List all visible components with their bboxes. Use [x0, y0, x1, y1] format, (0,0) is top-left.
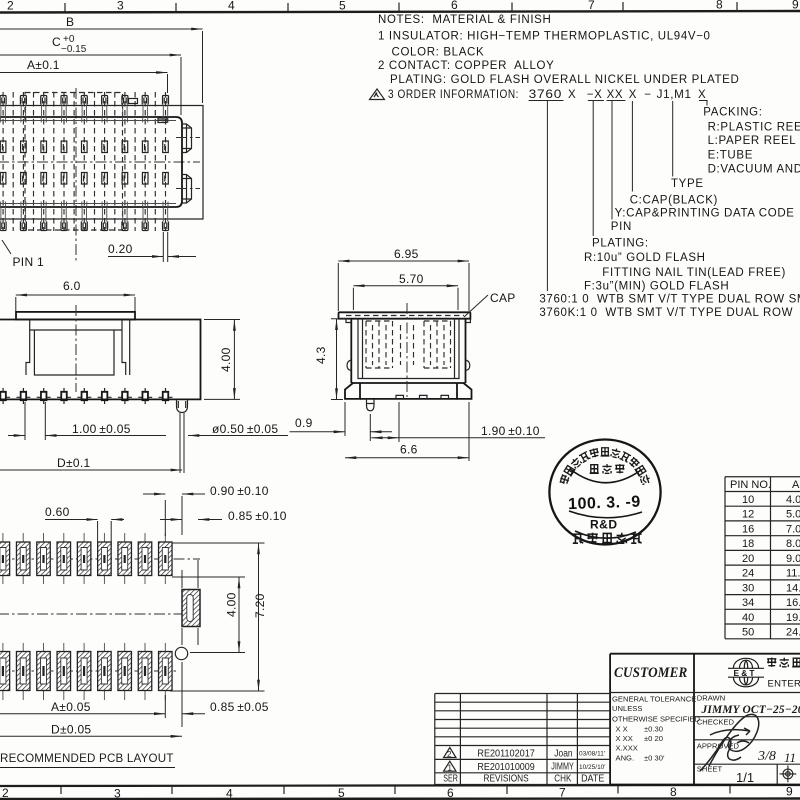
front view centerline: [75, 305, 77, 392]
svg-text:NOTES: MATERIAL & FINISH: NOTES: MATERIAL & FINISH: [378, 14, 551, 26]
svg-text:0.20: 0.20: [108, 242, 133, 256]
stamp circle: [549, 440, 660, 545]
border bottom zone numbers: [2, 785, 793, 800]
svg-text:CHK: CHK: [554, 774, 571, 785]
svg-text:ø0.50 ±0.05: ø0.50 ±0.05: [212, 422, 278, 436]
border bottom ruler line: [0, 785, 800, 786]
svg-text:7.0: 7.0: [786, 523, 800, 535]
svg-text:XX: XX: [607, 89, 624, 101]
svg-text:30: 30: [742, 582, 754, 594]
svg-text:FITTING NAIL TIN(LEAD FREE): FITTING NAIL TIN(LEAD FREE): [602, 267, 786, 279]
svg-text:5.70: 5.70: [399, 272, 424, 286]
svg-text:−0.15: −0.15: [61, 44, 87, 55]
svg-text:PACKING:: PACKING:: [703, 107, 762, 119]
svg-text:6.95: 6.95: [394, 247, 419, 261]
svg-text:4.3: 4.3: [314, 346, 328, 364]
svg-text:11: 11: [784, 750, 796, 765]
svg-text:X: X: [568, 89, 576, 101]
svg-text:E:TUBE: E:TUBE: [708, 150, 753, 162]
pcb long extension line peg center: [182, 496, 198, 727]
side view inner shell: [358, 319, 459, 379]
svg-text:9: 9: [786, 785, 793, 799]
top view pins lower row: [0, 222, 168, 231]
border top ruler line: [0, 11, 800, 13]
svg-text:3760:1 0 WTB SMT V/T TYPE DUA: 3760:1 0 WTB SMT V/T TYPE DUAL ROW SM: [539, 294, 800, 306]
svg-text:3/8: 3/8: [757, 749, 776, 764]
svg-text:X: X: [629, 89, 637, 101]
svg-text:16.0: 16.0: [786, 597, 800, 609]
svg-text:±0.30: ±0.30: [644, 725, 663, 734]
top view contacts row 2: [0, 173, 168, 185]
side view left hook: [346, 319, 351, 371]
border bottom edge line: [0, 797, 800, 800]
border top zone numbers: [7, 0, 799, 13]
svg-text:GENERAL TOLERANCE: GENERAL TOLERANCE: [612, 695, 696, 704]
side view feet: [345, 383, 472, 399]
dimension 0.60: [98, 521, 112, 545]
title block outline: [610, 654, 800, 785]
revisions table grid: [435, 694, 610, 785]
dimension 7.20: [258, 543, 260, 691]
front view locating peg: [177, 399, 188, 412]
svg-text:0.60: 0.60: [45, 505, 70, 519]
svg-text:8: 8: [670, 785, 677, 799]
svg-text:1: 1: [448, 764, 453, 773]
top view contacts row 1: [0, 141, 168, 153]
side view cap plate: [339, 312, 471, 318]
svg-text:5: 5: [338, 786, 345, 800]
svg-text:10/25/10′: 10/25/10′: [579, 764, 606, 771]
pcb hole circle: [175, 647, 187, 659]
dimension ø0.50±0.05: [188, 435, 288, 437]
svg-text:16: 16: [742, 523, 754, 535]
svg-text:D±0.05: D±0.05: [51, 723, 91, 737]
svg-text:1.90 ±0.10: 1.90 ±0.10: [481, 424, 540, 438]
svg-text:3: 3: [114, 787, 121, 800]
svg-text:DRAWN: DRAWN: [697, 694, 725, 703]
svg-text:34: 34: [742, 597, 754, 609]
svg-text:3760: 3760: [529, 89, 563, 101]
svg-text:SER: SER: [443, 774, 458, 785]
svg-text:RECOMMENDED PCB LAYOUT: RECOMMENDED PCB LAYOUT: [0, 752, 174, 765]
svg-text:2 CONTACT: COPPER ALLOY: 2 CONTACT: COPPER ALLOY: [378, 60, 554, 72]
pcb pad centerlines: [3, 533, 165, 700]
dimension 1.00±0.05: [25, 402, 45, 440]
svg-text:9: 9: [792, 0, 799, 12]
top view pins upper row: [0, 96, 168, 105]
top view polarity mark: [129, 99, 138, 104]
pcb peg pad: [182, 590, 200, 627]
side view bottom edge: [360, 398, 457, 400]
front view cavity: [26, 320, 130, 376]
svg-text:0.90 ±0.10: 0.90 ±0.10: [210, 484, 269, 498]
front view body: [0, 320, 201, 400]
top view latch lower: [182, 175, 192, 204]
top view cap outline hidden: [25, 93, 123, 231]
svg-text:JIMMY: JIMMY: [551, 762, 574, 773]
svg-text:B: B: [66, 15, 74, 29]
svg-text:Joan: Joan: [554, 749, 572, 760]
svg-text:0.9: 0.9: [295, 416, 313, 430]
svg-text:14.0: 14.0: [786, 582, 800, 594]
svg-text:8.0: 8.0: [786, 538, 800, 550]
pcb pads top row: [0, 542, 172, 576]
svg-text:PIN 1: PIN 1: [13, 255, 45, 269]
svg-text:3 ORDER INFORMATION:: 3 ORDER INFORMATION:: [388, 89, 519, 101]
svg-text:3760K:1 0 WTB SMT V/T TYPE DU: 3760K:1 0 WTB SMT V/T TYPE DUAL ROW: [539, 307, 793, 319]
svg-text:A: A: [792, 479, 800, 491]
svg-text:DATE: DATE: [581, 774, 604, 785]
top view latch centerlines: [176, 138, 200, 189]
front view cap plate: [16, 312, 135, 320]
revision row 1: [444, 761, 456, 771]
pcb row centerline bottom: [0, 670, 176, 672]
svg-text:CAP: CAP: [490, 291, 516, 305]
order underlines: [529, 100, 708, 102]
svg-text:8: 8: [716, 0, 723, 12]
dimension 0.9: [345, 402, 370, 441]
PIN 1 leader: [2, 240, 11, 254]
top view pin stems: [1, 105, 168, 222]
svg-text:COLOR: BLACK: COLOR: BLACK: [392, 47, 485, 59]
svg-text:L:PAPER REEL: L:PAPER REEL: [708, 135, 797, 147]
svg-text:2: 2: [2, 786, 9, 800]
svg-text:J1,M1: J1,M1: [657, 89, 692, 101]
dimension D±0.05: [0, 735, 182, 737]
svg-text:20: 20: [742, 553, 754, 565]
svg-text:R:10u” GOLD FLASH: R:10u” GOLD FLASH: [584, 252, 706, 264]
stamp upper arc: [570, 469, 641, 483]
svg-text:6: 6: [447, 786, 454, 800]
svg-text:SHEET: SHEET: [697, 765, 723, 774]
svg-text:D:VACUUM AND TRAY: D:VACUUM AND TRAY: [708, 164, 800, 176]
svg-text:50: 50: [742, 627, 754, 639]
svg-text:19.0: 19.0: [786, 612, 800, 624]
svg-text:24.0: 24.0: [786, 627, 800, 639]
revision row 2: [444, 748, 456, 758]
svg-text:0.85 ±0.05: 0.85 ±0.05: [210, 700, 269, 714]
registration mark: [780, 766, 797, 783]
svg-text:±0 20: ±0 20: [644, 734, 663, 743]
dimension 0.20: [108, 256, 163, 258]
svg-text:ANG.: ANG.: [616, 754, 635, 763]
dimension 4.00: [233, 320, 235, 400]
stamp 研發工程課: [573, 533, 642, 543]
dimension 0.85±0.05: [182, 713, 205, 715]
pcb peg centerline horizontal: [0, 613, 182, 615]
svg-text:4.00: 4.00: [219, 347, 233, 372]
svg-text:±0 30′: ±0 30′: [644, 754, 665, 763]
svg-text:C: C: [52, 35, 61, 49]
svg-text:18: 18: [742, 538, 754, 550]
svg-text:12: 12: [742, 509, 754, 521]
dimension D±0.1: [0, 469, 182, 471]
svg-text:24: 24: [742, 568, 754, 580]
dimension 5.70: [353, 285, 458, 287]
top view vertical centerline: [75, 88, 77, 262]
svg-text:4.00: 4.00: [225, 592, 239, 617]
svg-text:CHECKED: CHECKED: [697, 718, 735, 727]
title block row lines: [610, 693, 800, 785]
svg-text:R:PLASTIC REEL: R:PLASTIC REEL: [708, 121, 800, 133]
svg-text:4: 4: [226, 787, 233, 800]
pcb row centerline top: [0, 558, 200, 560]
svg-text:0.85 ±0.10: 0.85 ±0.10: [228, 509, 287, 523]
svg-text:PIN NO.: PIN NO.: [730, 479, 771, 491]
svg-text:03/08/11′: 03/08/11′: [579, 751, 606, 758]
svg-text:1 INSULATOR: HIGH−TEMP THERMOP: 1 INSULATOR: HIGH−TEMP THERMOPLASTIC, UL…: [378, 31, 711, 43]
svg-text:PIN: PIN: [611, 221, 632, 233]
svg-text:40: 40: [742, 612, 754, 624]
svg-text:X: X: [698, 89, 706, 101]
note 3 order triangle: [370, 89, 385, 100]
top view insulator body: [0, 117, 182, 207]
svg-text:E&T: E&T: [734, 668, 757, 678]
svg-text:7.20: 7.20: [253, 593, 267, 618]
E&T logo globe: [728, 658, 764, 686]
stamp 發行章: [590, 464, 625, 473]
svg-text:5: 5: [339, 0, 346, 13]
svg-text:A±0.1: A±0.1: [27, 58, 60, 72]
front view lead ticks: [0, 388, 172, 404]
svg-text:ENTERY C: ENTERY C: [768, 679, 800, 690]
svg-text:PLATING:: PLATING:: [592, 237, 649, 249]
svg-text:D±0.1: D±0.1: [57, 456, 90, 470]
front view solder leads: [0, 392, 168, 400]
border top ruler ticks: [65, 2, 737, 12]
svg-text:X.XXX: X.XXX: [616, 744, 638, 753]
border bottom ruler ticks: [61, 786, 730, 795]
dimension 6.0: [16, 294, 135, 296]
svg-text:9.0: 9.0: [786, 553, 800, 565]
svg-text:UNLESS: UNLESS: [612, 704, 642, 713]
svg-text:6.0: 6.0: [63, 279, 81, 293]
svg-text:4: 4: [228, 0, 235, 13]
order leader lines: [547, 101, 707, 291]
top view horizontal centerline: [0, 161, 200, 163]
dimension 6.6: [468, 402, 470, 461]
pin table grid: [725, 477, 800, 639]
svg-text:CUSTOMER: CUSTOMER: [614, 665, 688, 681]
svg-text:7: 7: [588, 0, 595, 12]
dimension 0.90±0.10: [164, 500, 166, 536]
CAP leader: [464, 295, 488, 317]
svg-text:PLATING: GOLD FLASH OVERALL NI: PLATING: GOLD FLASH OVERALL NICKEL UNDER…: [390, 74, 739, 86]
checked signature: [709, 714, 759, 766]
top view latch upper: [182, 124, 192, 153]
dimension 0.85±0.10: [160, 519, 182, 521]
dimension B: [0, 28, 203, 30]
svg-text:TYPE: TYPE: [671, 178, 704, 190]
dimension 4.00 pcb: [238, 577, 240, 653]
svg-text:5.0: 5.0: [786, 509, 800, 521]
side view body walls: [351, 319, 465, 383]
side view right hook: [466, 319, 471, 371]
side view peg: [367, 399, 375, 411]
svg-text:RE201010009: RE201010009: [477, 762, 535, 773]
pcb pads bottom row: [0, 652, 172, 691]
svg-text:1/1: 1/1: [736, 770, 754, 785]
svg-text:Y:CAP&PRINTING DATA CODE: Y:CAP&PRINTING DATA CODE: [615, 208, 795, 220]
side view solder tail bumps: [396, 395, 449, 399]
dimension A±0.1: [0, 72, 168, 74]
svg-text:11.0: 11.0: [786, 568, 800, 580]
svg-text:X X: X X: [616, 725, 628, 734]
dimension A±0.05: [164, 695, 166, 718]
svg-text:3: 3: [117, 0, 124, 13]
svg-text:7: 7: [559, 786, 566, 800]
top view edge contact marks: [1, 117, 168, 207]
logo company CJK: [767, 658, 800, 667]
svg-text:F:3u”(MIN) GOLD FLASH: F:3u”(MIN) GOLD FLASH: [584, 280, 729, 292]
dimension 4.3: [336, 319, 338, 400]
peg extension lines: [180, 413, 184, 473]
dimension 6.95: [338, 260, 469, 262]
approved signature: [700, 737, 749, 771]
svg-text:OTHERWISE SPECIFIED: OTHERWISE SPECIFIED: [612, 715, 701, 724]
side view hidden contact cavities: [366, 321, 393, 368]
svg-text:A±0.05: A±0.05: [51, 700, 91, 714]
svg-text:1.00 ±0.05: 1.00 ±0.05: [72, 422, 131, 436]
svg-text:100. 3. -9: 100. 3. -9: [568, 494, 641, 514]
stamp lower arc 1: [569, 511, 642, 518]
top view hidden centerlines: [3, 92, 165, 231]
svg-text:−: −: [644, 89, 651, 101]
svg-text:REVISIONS: REVISIONS: [484, 774, 529, 785]
svg-text:RE201102017: RE201102017: [477, 749, 535, 760]
top view cap outer box: [0, 106, 203, 220]
svg-text:6.6: 6.6: [400, 443, 418, 457]
svg-text:10: 10: [742, 494, 754, 506]
dimension C: [0, 54, 181, 56]
svg-text:2: 2: [7, 0, 14, 13]
svg-text:C:CAP(BLACK): C:CAP(BLACK): [630, 194, 718, 206]
stamp lower arc 2: [575, 531, 636, 538]
stamp arc company name: [559, 448, 651, 485]
svg-text:6: 6: [451, 0, 458, 12]
svg-text:4.0: 4.0: [786, 494, 800, 506]
svg-text:X XX: X XX: [616, 734, 633, 743]
svg-text:2: 2: [447, 750, 452, 759]
side view centerline: [406, 303, 408, 397]
svg-text:R&D: R&D: [590, 518, 618, 532]
dimension 1.90±0.10: [398, 402, 400, 442]
svg-text:−X: −X: [587, 89, 603, 101]
top view keying mark: [158, 118, 167, 123]
